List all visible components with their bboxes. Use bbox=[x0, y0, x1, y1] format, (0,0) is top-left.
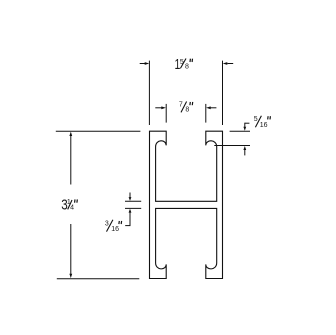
dim 5/16 extension line top bbox=[230, 130, 250, 132]
svg-text:3: 3 bbox=[105, 221, 109, 228]
dim 7/8 right arrow bbox=[206, 106, 216, 109]
dim label 1-5/8" bbox=[175, 55, 193, 72]
dim 5/16 upper leader arrow bbox=[243, 123, 249, 131]
H-bar extrusion profile outline bbox=[150, 131, 223, 278]
dim 1-5/8 right arrow bbox=[223, 62, 234, 65]
dim 7/8 extension line right bbox=[205, 104, 207, 123]
dim label 3/16" bbox=[105, 220, 122, 233]
dim label 7/8" bbox=[179, 101, 193, 113]
dim 3-1/4 line upper segment with up arrow bbox=[69, 132, 72, 185]
dim 3/16 lower leader arrow bbox=[125, 209, 131, 226]
dim label 5/16" bbox=[254, 116, 271, 129]
dim label 3-1/4" bbox=[61, 196, 77, 213]
dim 3/16 upper arrow bbox=[129, 193, 132, 201]
dim 1-5/8 extension line right bbox=[222, 61, 224, 125]
dim 5/16 extension line bottom bbox=[214, 145, 250, 147]
svg-text:4: 4 bbox=[70, 204, 74, 211]
dim 1-5/8 extension line left bbox=[148, 61, 150, 125]
dim 3/16 extension line bottom bbox=[125, 207, 141, 209]
svg-text:16: 16 bbox=[260, 122, 268, 129]
dim 7/8 extension line left bbox=[165, 104, 167, 123]
dim 5/16 lower arrow bbox=[243, 146, 246, 155]
svg-text:8: 8 bbox=[185, 63, 189, 70]
dim 1-5/8 left arrow bbox=[140, 62, 150, 65]
dim 3-1/4 extension line bottom bbox=[57, 278, 140, 280]
svg-text:5: 5 bbox=[254, 116, 258, 123]
dim 3-1/4 extension line top bbox=[56, 130, 141, 132]
svg-text:16: 16 bbox=[111, 226, 119, 233]
svg-text:8: 8 bbox=[185, 107, 189, 114]
dim 3-1/4 line lower segment with down arrow bbox=[69, 224, 72, 278]
dim 7/8 left arrow bbox=[155, 106, 166, 109]
svg-text:7: 7 bbox=[179, 101, 183, 108]
dim 3/16 extension line top bbox=[125, 200, 141, 202]
